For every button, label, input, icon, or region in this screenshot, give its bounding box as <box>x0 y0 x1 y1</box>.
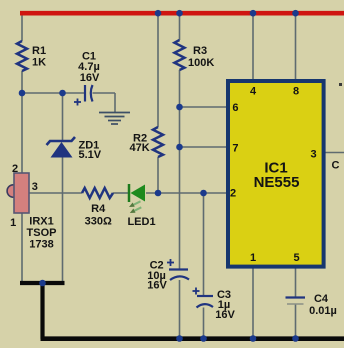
svg-text:1: 1 <box>10 217 16 229</box>
svg-text:5: 5 <box>293 252 299 264</box>
svg-text:R4: R4 <box>91 203 106 215</box>
svg-text:2: 2 <box>12 163 18 175</box>
svg-text:TSOP: TSOP <box>27 227 57 239</box>
svg-text:16V: 16V <box>215 309 235 321</box>
svg-text:IRX1: IRX1 <box>29 216 53 228</box>
svg-text:R3: R3 <box>193 45 207 57</box>
svg-text:3: 3 <box>310 149 316 161</box>
svg-text:3: 3 <box>32 181 38 193</box>
svg-text:1K: 1K <box>32 57 46 69</box>
svg-text:0.01µ: 0.01µ <box>309 305 337 317</box>
svg-text:100K: 100K <box>188 57 214 69</box>
svg-text:16V: 16V <box>147 280 167 292</box>
svg-text:330Ω: 330Ω <box>85 216 112 228</box>
svg-text:1: 1 <box>250 252 256 264</box>
svg-text:LED1: LED1 <box>127 216 155 228</box>
svg-text:16V: 16V <box>80 72 100 84</box>
svg-text:8: 8 <box>293 86 299 98</box>
svg-text:6: 6 <box>232 102 238 114</box>
svg-text:R1: R1 <box>32 45 46 57</box>
svg-text:4: 4 <box>250 86 257 98</box>
svg-text:NE555: NE555 <box>254 174 300 191</box>
svg-text:2: 2 <box>230 188 236 200</box>
svg-text:5.1V: 5.1V <box>79 149 102 161</box>
svg-text:1738: 1738 <box>29 239 53 251</box>
svg-text:7: 7 <box>232 143 238 155</box>
svg-text:C: C <box>332 160 340 172</box>
svg-text:47K: 47K <box>130 142 150 154</box>
svg-text:C4: C4 <box>314 293 329 305</box>
